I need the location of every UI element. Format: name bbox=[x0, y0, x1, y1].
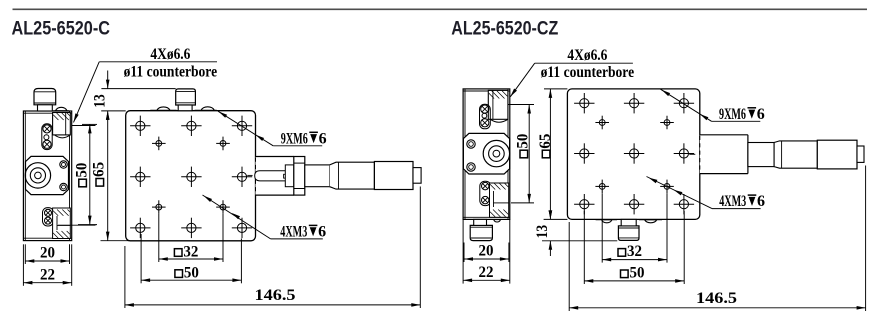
cz dim sq50b ext lines bbox=[583, 211, 585, 284]
cz M6 hole r2c1 bbox=[574, 143, 594, 163]
dim 20 ext lines bbox=[24, 244, 26, 264]
leader 4XM3 bbox=[203, 195, 271, 239]
side view small pin bbox=[44, 135, 49, 140]
dim sq50v ext top bbox=[72, 125, 96, 127]
plate top tab right bbox=[195, 107, 217, 110]
label underline bbox=[99, 61, 217, 63]
plate top tab left bbox=[150, 107, 176, 110]
leader 9XM6 arrow 1 bbox=[219, 112, 228, 118]
svg-text:50: 50 bbox=[515, 134, 532, 149]
cz dim 146.5 ext lines bbox=[568, 222, 570, 311]
dim 22 ext lines bbox=[22, 244, 24, 285]
cz side view drum middle circle bbox=[489, 146, 505, 162]
side view drum outer circle bbox=[25, 163, 50, 188]
cz dim sq65v text bbox=[537, 134, 554, 158]
cz M6 hole r3c3 bbox=[674, 194, 694, 214]
M3 hole 1 bbox=[152, 137, 166, 151]
dim 146.5 ext lines bbox=[124, 246, 126, 308]
leader 9XM6 arrow 2 bbox=[256, 135, 265, 141]
cz leader 9XM6 arrow 1 bbox=[662, 90, 671, 96]
cz side view lower screw capsule bbox=[480, 181, 491, 205]
cz side view upper screw capsule bbox=[480, 104, 491, 129]
cz side view small pin bbox=[482, 113, 487, 118]
dim 13 arrow top bbox=[106, 80, 110, 89]
dim sq50v ext bottom bbox=[58, 224, 96, 226]
cz label 9XM6 bbox=[719, 106, 765, 123]
cz micrometer sleeve bbox=[774, 141, 817, 168]
cz dim 13 tick bottom bbox=[542, 240, 617, 242]
side view drum middle circle bbox=[30, 168, 45, 183]
cz dim sq50b text bbox=[621, 265, 645, 282]
svg-text:AL25-6520-CZ: AL25-6520-CZ bbox=[451, 19, 558, 40]
side view knob mount plate bbox=[26, 156, 69, 194]
cz M3 hole 1 bbox=[595, 116, 609, 130]
cz label 4XM3 underline bbox=[712, 208, 761, 210]
cz plate bottom tab right bbox=[639, 220, 662, 223]
M6 hole r1c3 bbox=[232, 116, 252, 136]
cz dim sq50v arrows bbox=[527, 105, 531, 114]
cz dim 20 line bbox=[464, 258, 509, 260]
cz micrometer thimble bbox=[817, 140, 857, 169]
M3 hole 3 bbox=[152, 200, 166, 214]
cz plate bottom knob bbox=[618, 219, 639, 240]
dim sq50v text bbox=[73, 163, 90, 187]
svg-text:22: 22 bbox=[479, 264, 494, 281]
side view inner right edge bbox=[69, 111, 71, 241]
cz dim sq32 text bbox=[618, 243, 642, 260]
cz dim sq50b arrows bbox=[584, 279, 593, 283]
dim 146.5 arrows bbox=[125, 303, 134, 307]
dim sq50v arrows bbox=[88, 124, 92, 133]
cz label underline bbox=[535, 62, 633, 64]
micrometer inner body bbox=[285, 165, 294, 187]
svg-text:6: 6 bbox=[319, 130, 327, 147]
cz micrometer end cap bbox=[857, 146, 864, 162]
M6 hole r2c2 bbox=[181, 167, 201, 187]
cz M3 hole 2 bbox=[660, 116, 674, 130]
dim sq50v tick bottom bbox=[78, 224, 97, 226]
side view top knob bbox=[34, 89, 56, 112]
micrometer stem bbox=[305, 165, 330, 187]
label 9XM6 bbox=[281, 130, 327, 147]
cz M6 hole r3c1 bbox=[574, 194, 594, 214]
cz leader 4XM3 arrow 2 bbox=[674, 190, 683, 196]
cz leader 4XM3 bbox=[647, 177, 713, 209]
cz M3 hole 3 bbox=[595, 180, 609, 194]
cz side view dome tab bbox=[494, 220, 501, 222]
dim sq32 ext lines bbox=[158, 214, 160, 262]
cz side view drum outer circle bbox=[483, 140, 509, 166]
cz side view mount screw top bbox=[467, 140, 475, 148]
dim sq50v tick top bbox=[82, 123, 97, 125]
cz side view lower screw 1 bbox=[482, 182, 489, 189]
dim 20 arrows bbox=[25, 259, 34, 263]
plate top knob bbox=[176, 89, 196, 111]
cz side view bottom knob bbox=[470, 219, 492, 240]
M6 hole r1c1 bbox=[130, 116, 150, 136]
svg-text:65: 65 bbox=[537, 134, 554, 149]
side view top inner line bbox=[23, 112, 71, 114]
dim sq65v line bbox=[107, 111, 109, 241]
cz dim 22 ext lines bbox=[462, 219, 464, 283]
dim 13 arrow bottom bbox=[106, 111, 110, 120]
micrometer spindle bbox=[255, 171, 288, 181]
top border rule bbox=[13, 8, 868, 10]
svg-text:ø11 counterbore: ø11 counterbore bbox=[124, 64, 218, 81]
cz leader 9XM6 arrow 2 bbox=[700, 114, 709, 120]
cz dim sq32 arrows bbox=[602, 258, 611, 262]
cz label 9XM6 underline bbox=[712, 120, 761, 122]
leader 4XM3 arrow 1 bbox=[204, 196, 213, 202]
cz dim sq32 ext lines bbox=[601, 193, 603, 262]
dim sq50b ext lines bbox=[140, 234, 142, 283]
cz leader counterbore arrow bbox=[510, 89, 517, 97]
svg-text:146.5: 146.5 bbox=[696, 290, 737, 307]
M6 hole r3c2 bbox=[181, 218, 201, 238]
svg-text:ø11 counterbore: ø11 counterbore bbox=[541, 64, 635, 81]
leader counterbore arrow bbox=[74, 113, 79, 122]
cz dim 20 ext lines bbox=[463, 243, 465, 263]
svg-text:4XM3: 4XM3 bbox=[280, 223, 307, 240]
cz dim sq50b line bbox=[584, 280, 684, 282]
side view outer body bbox=[23, 111, 71, 241]
svg-text:20: 20 bbox=[40, 245, 55, 262]
cz M3 hole 4 bbox=[660, 180, 674, 194]
micrometer centerline bbox=[247, 174, 252, 176]
leader counterbore bbox=[74, 62, 100, 123]
cz dim 146.5 arrows bbox=[569, 306, 578, 310]
cz side view inner left edge bbox=[464, 89, 466, 220]
cz plate edge hidden dashes bbox=[699, 136, 701, 173]
side view lower screw 1 bbox=[45, 209, 52, 216]
svg-text:6: 6 bbox=[318, 223, 326, 240]
side view mount screw bottom bbox=[60, 183, 67, 190]
cz side view inner right edge bbox=[507, 89, 509, 220]
cz leader 9XM6 bbox=[661, 89, 712, 121]
M3 hole 2 bbox=[216, 137, 230, 151]
cz dim sq50v ext bottom bbox=[511, 202, 534, 204]
side view bottom inner line bbox=[23, 237, 71, 239]
svg-text:4Xø6.6: 4Xø6.6 bbox=[567, 47, 607, 64]
dim 22 arrows bbox=[23, 281, 32, 285]
M3 hole 4 bbox=[216, 200, 230, 214]
cz side view counterbore block bbox=[488, 90, 508, 122]
cz dim 13 arrow top bbox=[549, 210, 553, 219]
leader 9XM6 bbox=[218, 111, 273, 146]
side view mount screw top bbox=[60, 161, 67, 168]
dim sq32 text bbox=[174, 243, 198, 260]
svg-text:20: 20 bbox=[479, 243, 494, 260]
cz dim sq50v line bbox=[528, 105, 530, 203]
dim sq50b line bbox=[141, 279, 241, 281]
cz dim sq65v arrows bbox=[549, 89, 553, 98]
side view upper screw 1 bbox=[43, 125, 51, 133]
cz dim sq65v tick top bbox=[544, 88, 567, 90]
dim 13 extension top bbox=[101, 88, 175, 90]
micrometer flange bbox=[294, 157, 305, 196]
M6 hole r2c1 bbox=[130, 167, 150, 187]
cz dim sq50v ext top bbox=[508, 104, 534, 106]
cz plate bottom tab left bbox=[596, 220, 617, 223]
micrometer end cap bbox=[413, 168, 421, 184]
cz side view mount screw bottom bbox=[467, 163, 475, 171]
cz dim sq50v text bbox=[515, 134, 532, 158]
dim sq50b text bbox=[175, 264, 199, 281]
cz dim 146.5 line bbox=[569, 307, 865, 309]
svg-text:32: 32 bbox=[183, 243, 198, 260]
dim 20 line bbox=[25, 260, 69, 262]
cz dim sq32 line bbox=[602, 259, 667, 261]
cz side view knob mount plate bbox=[463, 133, 509, 174]
cz M6 hole r2c2 bbox=[624, 143, 644, 163]
svg-text:13: 13 bbox=[92, 94, 109, 108]
cz side view lower bracket bbox=[490, 183, 509, 217]
dim sq50b arrows bbox=[141, 278, 150, 282]
cz side view upper screw 2 bbox=[481, 119, 489, 127]
dim sq50v line bbox=[89, 124, 91, 224]
side view lower screw 2 bbox=[45, 217, 52, 224]
cz dim 22 line bbox=[463, 279, 510, 281]
cz dim 13 tick top bbox=[544, 218, 568, 220]
svg-text:6: 6 bbox=[757, 106, 765, 123]
svg-text:6: 6 bbox=[757, 193, 765, 210]
svg-text:50: 50 bbox=[184, 264, 199, 281]
micrometer thimble bbox=[374, 162, 413, 190]
cz M6 hole r1c2 bbox=[624, 93, 644, 113]
side view upper screw capsule bbox=[42, 124, 52, 150]
leader 4XM3 arrow 2 bbox=[232, 213, 241, 219]
side view drum inner circle bbox=[35, 172, 42, 179]
cz M6 hole r1c3 bbox=[674, 93, 694, 113]
cz label 4XM3 bbox=[719, 193, 765, 210]
svg-text:32: 32 bbox=[627, 243, 642, 260]
svg-text:146.5: 146.5 bbox=[255, 287, 296, 304]
svg-text:AL25-6520-C: AL25-6520-C bbox=[12, 19, 111, 40]
svg-text:9XM6: 9XM6 bbox=[281, 130, 308, 147]
svg-text:4Xø6.6: 4Xø6.6 bbox=[150, 46, 190, 63]
cz M6 hole r1c1 bbox=[574, 93, 594, 113]
M6 hole r3c1 bbox=[130, 218, 150, 238]
cz micrometer stem bbox=[748, 143, 774, 167]
side view inner left edge bbox=[24, 111, 26, 241]
side view lower screw capsule bbox=[43, 208, 54, 226]
cz dim 20 arrows bbox=[464, 257, 473, 261]
cz M6 hole r2c3 bbox=[674, 143, 694, 163]
cz dim 13 arrow bottom bbox=[549, 241, 553, 250]
dim sq32 arrows bbox=[159, 257, 168, 261]
cz leader 4XM3 arrow 1 bbox=[649, 178, 658, 184]
cz side view drum inner circle bbox=[493, 150, 500, 157]
side view upper screw 2 bbox=[43, 140, 51, 148]
side view lower bracket bbox=[53, 208, 71, 239]
M6 hole r2c3 bbox=[232, 167, 252, 187]
cz main plate bbox=[567, 89, 699, 220]
micrometer sleeve bbox=[330, 162, 375, 189]
dim 146.5 line bbox=[125, 304, 420, 306]
plate edge hidden dashes bbox=[255, 158, 257, 195]
cz micrometer bracket bbox=[700, 135, 748, 174]
side view counterbore block bbox=[53, 113, 71, 138]
dim 22 line bbox=[23, 282, 71, 284]
dim sq65v text bbox=[91, 162, 108, 186]
cz side view top inner line bbox=[463, 90, 510, 92]
M6 hole r3c3 bbox=[232, 218, 252, 238]
cz side view bottom inner line bbox=[463, 216, 510, 218]
cz side view lower screw 2 bbox=[482, 196, 489, 203]
svg-text:13: 13 bbox=[534, 225, 551, 239]
dim sq65v tick bottom bbox=[101, 240, 130, 242]
label 4XM3 underline bbox=[271, 238, 323, 240]
cz dim 13 line below bbox=[549, 241, 551, 256]
svg-text:4XM3: 4XM3 bbox=[719, 193, 746, 210]
svg-text:22: 22 bbox=[40, 266, 55, 283]
dim 13 text bbox=[92, 94, 109, 108]
label 9XM6 underline bbox=[273, 145, 322, 147]
cz dim sq65v line bbox=[549, 89, 551, 220]
dim 13 line bbox=[107, 71, 109, 89]
cz dim 22 arrows bbox=[463, 279, 472, 283]
svg-text:65: 65 bbox=[91, 162, 108, 177]
svg-text:9XM6: 9XM6 bbox=[719, 106, 746, 123]
M6 hole r1c2 bbox=[181, 116, 201, 136]
label 4XM3 bbox=[280, 223, 326, 240]
svg-text:50: 50 bbox=[630, 265, 645, 282]
micrometer bracket bbox=[256, 157, 294, 196]
cz dim 13 text bbox=[534, 225, 551, 239]
cz side view upper screw 1 bbox=[481, 105, 489, 113]
main plate bbox=[126, 111, 256, 241]
cz side view outer body bbox=[463, 89, 510, 220]
side view dome tab bbox=[53, 107, 69, 111]
dim sq65v arrows bbox=[106, 111, 110, 120]
cz leader counterbore bbox=[510, 63, 534, 97]
cz M6 hole r3c2 bbox=[624, 194, 644, 214]
svg-text:50: 50 bbox=[73, 163, 90, 178]
dim sq32 line bbox=[159, 258, 223, 260]
cz micrometer centerline bbox=[689, 153, 695, 155]
dim 13 extension bottom bbox=[101, 110, 126, 112]
